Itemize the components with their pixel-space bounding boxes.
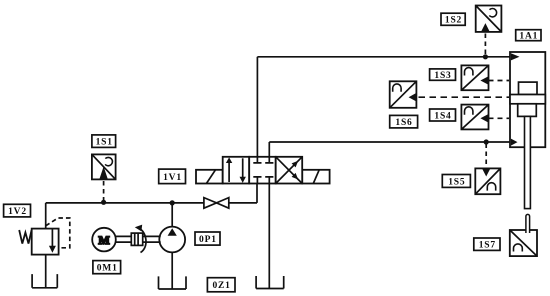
svg-text:1S6: 1S6: [395, 118, 412, 128]
svg-text:1S2: 1S2: [445, 16, 462, 26]
svg-text:0Z1: 0Z1: [212, 281, 230, 291]
svg-text:1V2: 1V2: [8, 207, 27, 217]
svg-text:M: M: [98, 233, 109, 247]
svg-text:1S3: 1S3: [434, 71, 451, 81]
svg-text:1S1: 1S1: [96, 138, 113, 148]
svg-text:1A1: 1A1: [519, 32, 538, 42]
svg-text:0P1: 0P1: [199, 235, 217, 245]
svg-text:0M1: 0M1: [97, 264, 118, 274]
svg-text:1S4: 1S4: [434, 111, 451, 121]
svg-text:1S7: 1S7: [479, 241, 496, 251]
svg-text:1S5: 1S5: [448, 177, 465, 187]
svg-text:1V1: 1V1: [163, 173, 182, 183]
